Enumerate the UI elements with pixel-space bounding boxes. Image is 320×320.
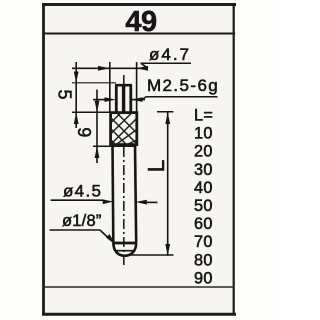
- dimension 5 : top arrowhead (points down to stud top level): [74, 72, 79, 84]
- dimension 6 : dimension line: [96, 90, 98, 164]
- dimension ø4.7 : underline: [141, 62, 192, 64]
- svg-text:20: 20: [194, 143, 213, 161]
- dimension L : bottom arrowhead (points down): [165, 244, 170, 256]
- footer divider line: [43, 286, 235, 288]
- dimension 5 : extension line at collar top: [72, 111, 110, 113]
- thread dim : left arrowhead (points right at stud): [105, 97, 116, 102]
- thread label M2.5-6g : right arrowhead (points left at stud): [131, 97, 142, 102]
- chamfer line at tip: [112, 242, 137, 245]
- leader ø1/8 : diagonal to tip: [100, 230, 110, 240]
- dimension ø4.7 : left arrowhead: [98, 66, 110, 71]
- dimension 5 : bottom arrowhead (points up to collar top level): [74, 112, 79, 124]
- leader ø4.5 : underline: [51, 199, 104, 201]
- svg-text:ø4.5: ø4.5: [63, 182, 102, 201]
- svg-text:L: L: [143, 159, 169, 172]
- leader ø1/8 : underline: [50, 229, 101, 231]
- leader ø4.5 : arrow to body left edge: [103, 200, 106, 201]
- dimension ø4.7 : leader to text: [141, 63, 148, 68]
- length table: [194, 107, 213, 288]
- thread dim : left side tail: [93, 99, 105, 101]
- dimension L : bottom extension line: [129, 254, 174, 256]
- dimension ø4.7 : right arrowhead: [137, 66, 148, 71]
- knurled collar (cross-hatched): [111, 113, 137, 145]
- dim ø4.5 : right side tail: [146, 201, 158, 203]
- header divider line: [43, 33, 236, 35]
- dimension 5 : extension line at stud top: [72, 82, 116, 84]
- dimension ø4.7 : dimension line: [72, 67, 148, 69]
- thread label M2.5-6g : leader: [142, 97, 146, 100]
- chord line inside dome: [115, 250, 135, 252]
- svg-text:50: 50: [194, 197, 213, 215]
- thread label M2.5-6g : underline: [146, 96, 218, 98]
- shoulder line below collar: [93, 145, 137, 147]
- svg-text:5: 5: [54, 89, 74, 99]
- svg-text:40: 40: [194, 179, 213, 197]
- svg-text:6: 6: [75, 127, 95, 137]
- outer border frame: [42, 3, 236, 315]
- dimension 5 : dimension line: [75, 62, 77, 128]
- svg-text:ø1/8”: ø1/8”: [62, 212, 102, 230]
- dimension ø4.7 : extension lines: [109, 62, 111, 112]
- dimension L : dimension line: [167, 112, 169, 256]
- svg-text:ø4.7: ø4.7: [149, 45, 191, 64]
- threaded stud M2.5: [115, 84, 132, 112]
- svg-text:M2.5-6g: M2.5-6g: [147, 76, 219, 95]
- center line (axis): [123, 75, 125, 265]
- dimension 6 : bottom arrowhead (points up to collar bottom): [95, 146, 100, 158]
- dimension L : top arrowhead (points up): [165, 112, 170, 124]
- dimension L : top extension tick: [157, 111, 174, 113]
- svg-text:90: 90: [194, 269, 213, 287]
- rounded tip dome: [113, 244, 136, 256]
- svg-text:60: 60: [194, 215, 213, 233]
- body cylinder: [113, 145, 137, 243]
- svg-text:30: 30: [194, 161, 213, 179]
- svg-text:L=: L=: [194, 107, 213, 125]
- dim ø4.5 : right arrowhead (points left at body right edge): [136, 200, 147, 205]
- svg-text:70: 70: [194, 233, 213, 251]
- svg-text:10: 10: [194, 125, 213, 143]
- dimension 6 : top arrowhead (points down to collar top): [95, 101, 100, 113]
- svg-text:80: 80: [194, 251, 213, 269]
- svg-text:49: 49: [125, 6, 157, 38]
